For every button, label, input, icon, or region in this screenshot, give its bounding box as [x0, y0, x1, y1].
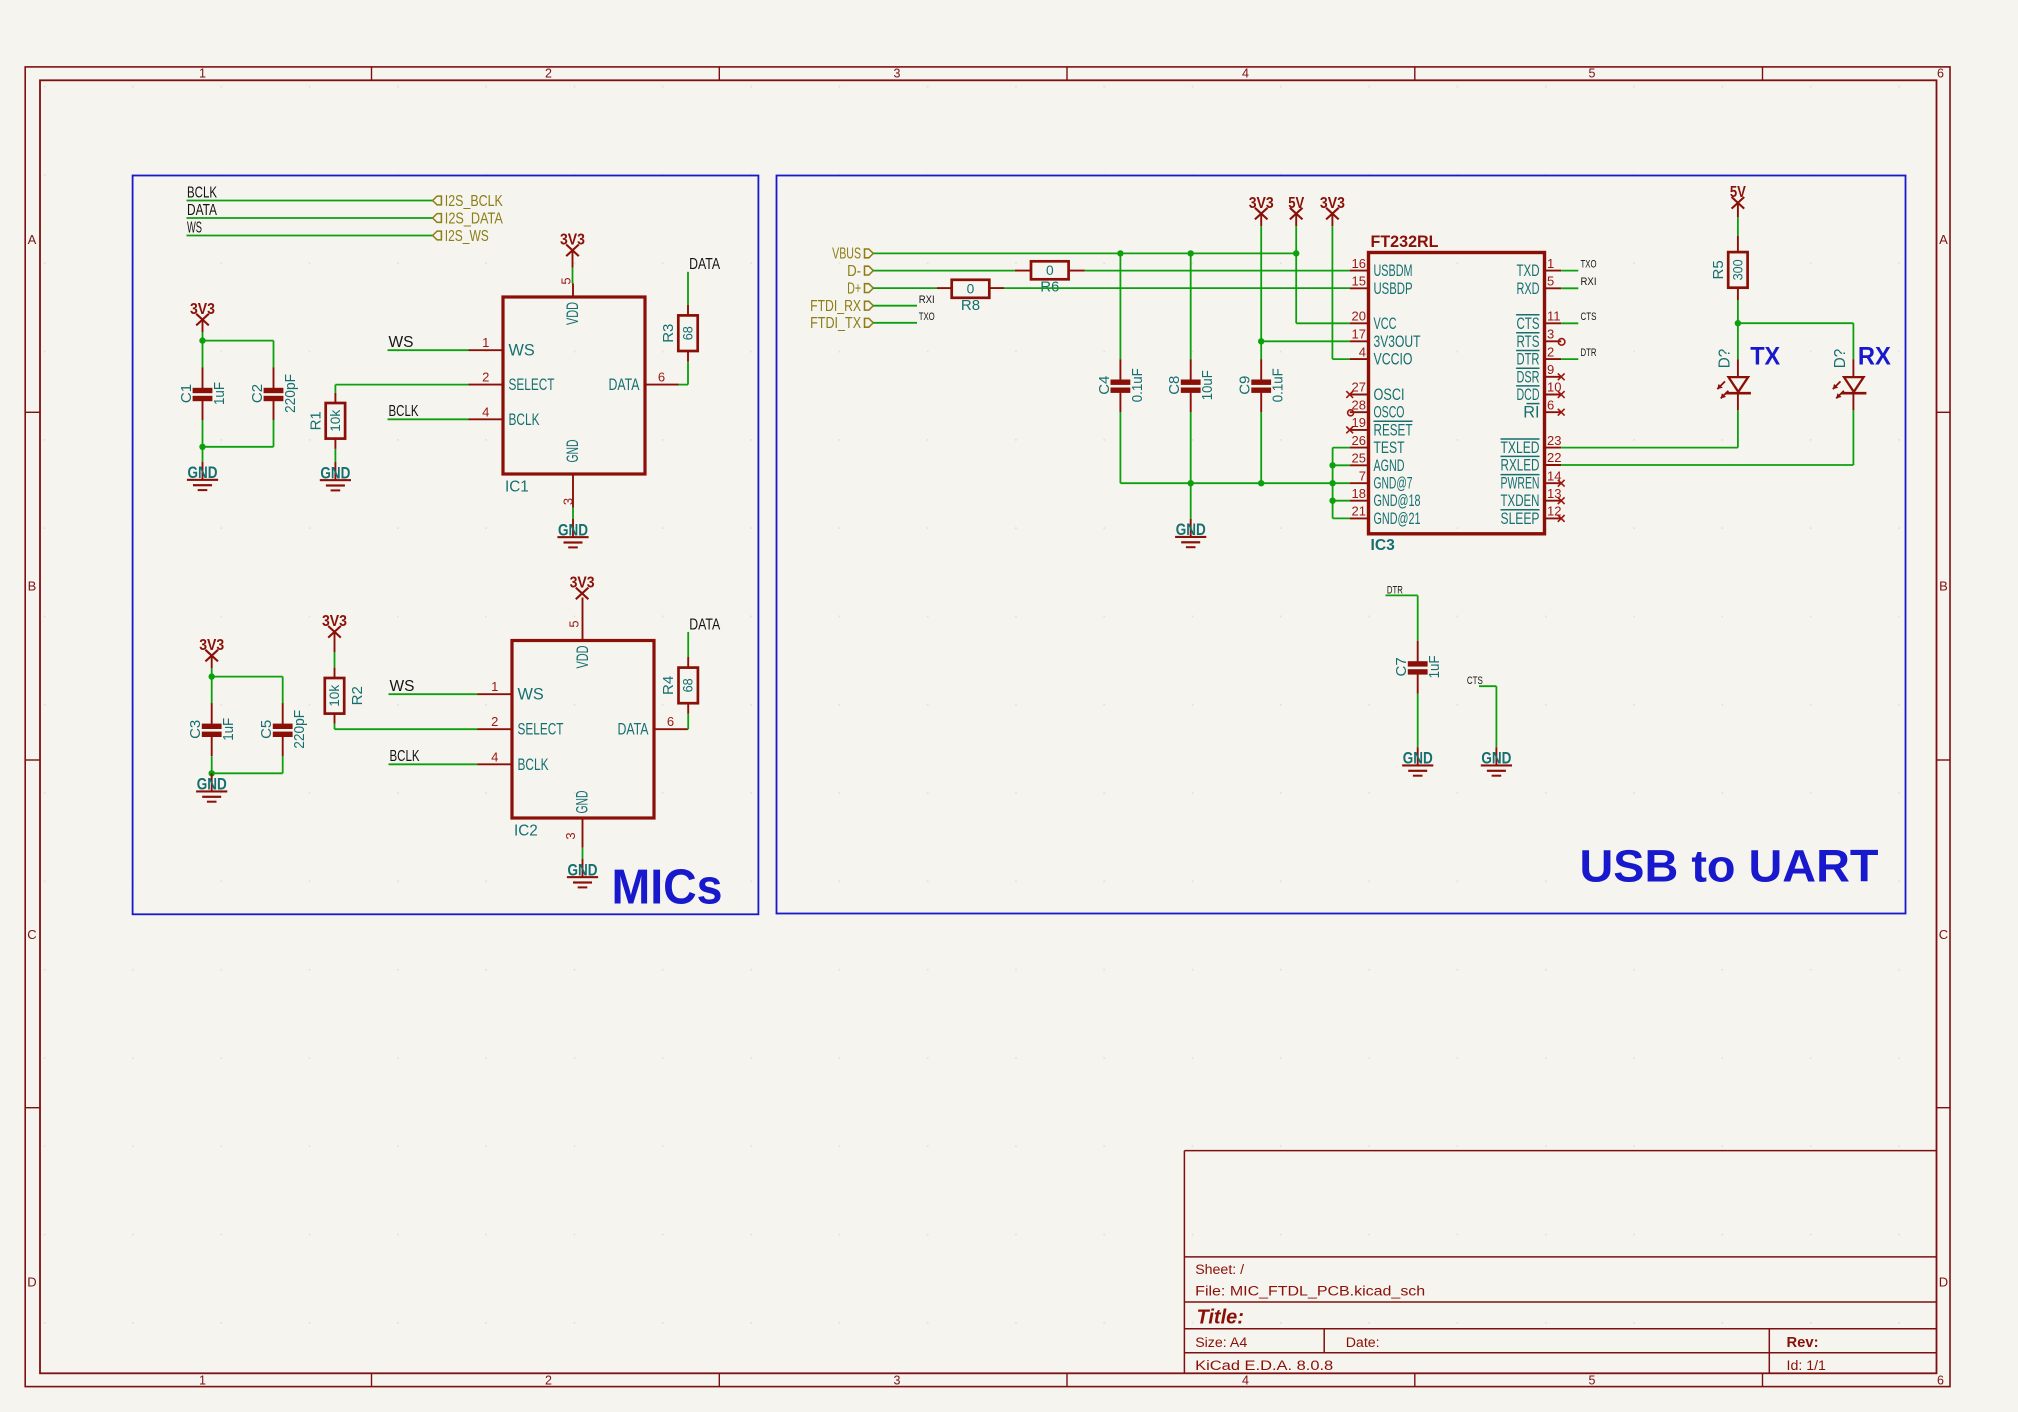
pin lead RX LED top — [1852, 359, 1854, 377]
title block text Size — [1195, 1335, 1247, 1351]
svg-text:3: 3 — [563, 832, 578, 839]
svg-text:C4: C4 — [1096, 376, 1113, 395]
wire 3V3 stem to junction (mic2) — [211, 668, 213, 677]
resistor R5 — [1710, 252, 1748, 288]
pin lead R5 top — [1737, 236, 1739, 252]
svg-text:15: 15 — [1352, 274, 1366, 289]
pin 6 RI of IC3 — [1523, 397, 1564, 421]
svg-text:4: 4 — [1359, 344, 1366, 359]
wire R3 to DATA label — [687, 272, 689, 305]
svg-text:1uF: 1uF — [220, 718, 237, 741]
hierarchical label I2S_DATA — [433, 210, 504, 227]
power 3V3 (C1/C2) — [190, 301, 215, 332]
wire 3V3 to IC1 pin5 — [572, 268, 574, 284]
svg-text:1: 1 — [482, 335, 489, 350]
svg-text:R2: R2 — [349, 686, 366, 705]
wire TXLED net — [1561, 410, 1738, 447]
svg-text:GND: GND — [564, 440, 582, 463]
svg-text:C3: C3 — [187, 720, 204, 739]
pin 14 PWREN of IC3 — [1501, 468, 1565, 492]
pin lead R3 bottom — [687, 351, 689, 362]
power 3V3 (R2) — [322, 613, 347, 652]
svg-text:C8: C8 — [1166, 376, 1183, 395]
wire VBUS to C4 — [1119, 253, 1121, 359]
svg-text:C9: C9 — [1237, 376, 1254, 395]
svg-text:Size: A4: Size: A4 — [1195, 1335, 1247, 1351]
resistor R8 — [952, 280, 990, 314]
svg-text:18: 18 — [1352, 486, 1366, 501]
svg-text:C: C — [27, 927, 36, 942]
wire DATA to I2S_DATA — [187, 217, 433, 219]
title block text Title — [1197, 1306, 1244, 1328]
svg-text:Id: 1/1: Id: 1/1 — [1787, 1358, 1827, 1374]
wire C4 to GND rail — [1119, 412, 1121, 483]
svg-text:I2S_DATA: I2S_DATA — [445, 210, 504, 227]
pin 4 BCLK of IC1 — [469, 404, 540, 429]
wire R5 to junction — [1737, 300, 1739, 323]
hierarchical label FTDI_RX — [810, 298, 873, 315]
pin lead R5 bottom — [1737, 288, 1739, 300]
svg-text:1: 1 — [1547, 256, 1554, 271]
pin 27 OSCI of IC3 — [1346, 380, 1404, 404]
svg-text:RX: RX — [1858, 343, 1891, 371]
wire TXD stub / label TXO — [1561, 259, 1597, 271]
wire DTR stub / label DTR — [1561, 347, 1596, 359]
hierarchical label VBUS — [832, 246, 873, 263]
title block text Date — [1346, 1335, 1380, 1351]
svg-text:4: 4 — [491, 749, 498, 764]
wire USBDP net — [1004, 287, 1349, 289]
pin 3 RTS of IC3 — [1516, 327, 1565, 351]
pin lead R6 left — [1015, 270, 1031, 272]
pin 16 USBDM of IC3 — [1350, 256, 1413, 280]
label DTR (C7) — [1387, 584, 1403, 596]
hierarchical label D- — [847, 263, 873, 280]
junction node GND mic1 — [199, 444, 205, 450]
svg-text:D?: D? — [1832, 349, 1849, 369]
capacitor C7 — [1393, 641, 1443, 694]
svg-text:3V3OUT: 3V3OUT — [1374, 333, 1421, 351]
pin 17 3V3OUT of IC3 — [1350, 327, 1421, 351]
resistor R4 — [660, 668, 698, 704]
pin 25 AGND of IC3 — [1350, 451, 1405, 475]
junction node 3V3OUT/C9 — [1258, 338, 1264, 344]
pin 26 TEST of IC3 — [1350, 433, 1405, 457]
svg-text:10uF: 10uF — [1199, 370, 1216, 400]
ground GND (C1/C2) — [187, 462, 218, 491]
svg-text:KiCad E.D.A. 8.0.8: KiCad E.D.A. 8.0.8 — [1195, 1358, 1333, 1374]
wire 3V3OUT row — [1261, 340, 1350, 342]
wire C3 bottom to GND junction — [211, 756, 213, 773]
svg-text:RXLED: RXLED — [1501, 457, 1540, 475]
wire FTDI_TX stub — [873, 322, 917, 324]
op-amp IC2 body (I2S microphone) — [512, 641, 654, 840]
capacitor C9 — [1237, 359, 1287, 412]
svg-text:3V3: 3V3 — [570, 575, 595, 592]
svg-text:D+: D+ — [847, 280, 861, 297]
wire 3V3 to R2 — [334, 652, 336, 668]
svg-text:C5: C5 — [258, 720, 275, 739]
wire C7 to GND — [1417, 694, 1419, 748]
svg-text:3: 3 — [894, 1373, 901, 1387]
svg-text:4: 4 — [1242, 1373, 1249, 1387]
junction node rail/IC3 grounds — [1329, 480, 1335, 486]
wire 3V3 junction down to C9 — [1260, 341, 1262, 359]
svg-text:RESET: RESET — [1374, 421, 1413, 439]
svg-text:USBDP: USBDP — [1374, 280, 1413, 298]
svg-text:I2S_BCLK: I2S_BCLK — [445, 193, 504, 210]
wire connector stub y=500.7 — [1333, 500, 1350, 502]
resistor R1 — [307, 403, 345, 439]
svg-text:BCLK: BCLK — [390, 748, 420, 765]
svg-text:USBDM: USBDM — [1374, 262, 1413, 280]
wire VBUS net — [873, 252, 1296, 254]
svg-text:6: 6 — [1937, 1373, 1944, 1387]
wire RXD stub / label RXI — [1561, 276, 1596, 288]
svg-text:22: 22 — [1547, 450, 1561, 465]
svg-text:FTDI_RX: FTDI_RX — [810, 298, 862, 315]
wire C5 bottom bridge — [212, 756, 283, 774]
wire junction to RX branch — [1738, 323, 1854, 359]
wire IC2 pin6 to R4 — [687, 714, 690, 730]
svg-text:D: D — [1939, 1275, 1948, 1290]
svg-text:VCCIO: VCCIO — [1374, 351, 1413, 369]
svg-text:1: 1 — [199, 67, 206, 81]
label DATA (mic2 out) — [689, 616, 721, 633]
svg-text:IC3: IC3 — [1371, 537, 1396, 554]
USB to UART section box — [777, 176, 1906, 914]
svg-text:C1: C1 — [178, 384, 195, 403]
wire connector stub y=483.2 — [1333, 482, 1350, 484]
svg-text:19: 19 — [1352, 415, 1366, 430]
svg-text:7: 7 — [1359, 468, 1366, 483]
svg-text:DATA: DATA — [689, 616, 721, 633]
svg-text:1: 1 — [199, 1373, 206, 1387]
wire 3V3 stem to junction — [202, 332, 204, 341]
hierarchical label I2S_BCLK — [433, 193, 504, 210]
svg-text:3V3: 3V3 — [322, 613, 347, 630]
label WS — [187, 219, 202, 236]
junction node VBUS/5V — [1293, 250, 1299, 256]
svg-text:4: 4 — [1242, 67, 1249, 81]
ground GND (R1) — [320, 462, 351, 491]
wire C1 bottom to GND junction — [202, 420, 204, 447]
svg-text:D?: D? — [1717, 349, 1734, 369]
svg-text:3: 3 — [561, 498, 576, 505]
svg-text:17: 17 — [1352, 327, 1366, 342]
capacitor C4 — [1096, 359, 1146, 412]
designator D? (TX) — [1717, 349, 1734, 369]
svg-text:Rev:: Rev: — [1787, 1335, 1819, 1351]
svg-text:R6: R6 — [1040, 279, 1059, 296]
pin 18 GND@18 of IC3 — [1350, 486, 1421, 510]
ground GND (IC2) — [567, 859, 598, 888]
pin 3 GND of IC2 — [563, 791, 592, 848]
junction node VBUS/C4 — [1117, 250, 1123, 256]
wire FTDI_RX stub — [873, 305, 917, 307]
svg-text:File: MIC_FTDL_PCB.kicad_sch: File: MIC_FTDL_PCB.kicad_sch — [1195, 1283, 1425, 1299]
pin 22 RXLED of IC3 — [1501, 450, 1562, 474]
svg-text:3V3: 3V3 — [199, 637, 224, 654]
svg-text:DATA: DATA — [618, 721, 649, 739]
svg-text:26: 26 — [1352, 433, 1366, 448]
svg-text:TXDEN: TXDEN — [1501, 492, 1540, 510]
svg-text:A: A — [1939, 232, 1948, 247]
title block — [1184, 1151, 1936, 1374]
pin 5 VDD of IC2 — [567, 598, 593, 669]
svg-text:6: 6 — [658, 370, 665, 385]
wire connector stub y=518.4 — [1333, 517, 1350, 519]
pin 4 BCLK of IC2 — [478, 749, 549, 774]
svg-text:DTR: DTR — [1581, 347, 1597, 359]
resistor R6 — [1031, 261, 1069, 295]
label WS (mic1) — [389, 334, 414, 351]
pin lead TX LED bottom — [1737, 393, 1739, 410]
svg-text:5: 5 — [567, 620, 582, 627]
wire IC3 ground connector — [1332, 448, 1334, 519]
svg-text:3V3: 3V3 — [190, 301, 215, 318]
svg-text:220pF: 220pF — [282, 374, 299, 413]
wire 3V3b stem to VCCIO — [1332, 226, 1349, 359]
junction node VBUS/C8 — [1188, 250, 1194, 256]
label BCLK — [187, 184, 217, 201]
pin lead RX LED bottom — [1852, 393, 1854, 410]
pin lead R4 bottom — [687, 703, 689, 714]
svg-text:3V3: 3V3 — [1320, 195, 1345, 212]
svg-text:R1: R1 — [307, 411, 324, 430]
wire IC1 pin6 to R3 — [679, 362, 689, 385]
svg-text:2: 2 — [491, 714, 498, 729]
svg-text:DATA: DATA — [689, 256, 721, 273]
power 5V (VCC) — [1288, 195, 1304, 226]
pin 28 OSCO of IC3 — [1348, 397, 1405, 421]
hierarchical label D+ — [847, 280, 873, 297]
wire R4 to DATA label — [687, 632, 689, 657]
capacitor C5 — [258, 703, 308, 756]
pin 21 GND@21 of IC3 — [1350, 504, 1421, 528]
svg-text:C2: C2 — [249, 384, 266, 403]
label RX — [1858, 343, 1891, 371]
svg-text:3: 3 — [894, 67, 901, 81]
power 3V3 (VCCIO) — [1320, 195, 1345, 226]
junction node GND mic2 — [209, 770, 215, 776]
wire USBDM net — [1085, 270, 1350, 272]
svg-text:RXI: RXI — [919, 294, 935, 306]
svg-text:RXD: RXD — [1517, 280, 1540, 298]
wire BCLK (mic1) — [388, 418, 469, 420]
svg-text:Sheet: /: Sheet: / — [1195, 1262, 1244, 1278]
ground GND (C7) — [1402, 747, 1433, 776]
pin lead TX LED top — [1737, 359, 1739, 377]
svg-text:TXO: TXO — [1581, 259, 1597, 271]
svg-text:BCLK: BCLK — [518, 756, 549, 774]
pin 19 RESET of IC3 — [1346, 415, 1412, 439]
svg-text:5: 5 — [1589, 1373, 1596, 1387]
pin 2 SELECT of IC2 — [478, 714, 564, 739]
pin lead R6 right — [1069, 270, 1085, 272]
title block text Id — [1787, 1358, 1827, 1374]
svg-text:OSCO: OSCO — [1374, 404, 1405, 422]
wire C8 to GND rail — [1190, 412, 1192, 483]
label CTS (pull) — [1467, 675, 1483, 687]
wire 3V3 stem to 3V3OUT junction — [1260, 226, 1262, 341]
wire RXLED net — [1561, 410, 1853, 465]
pin lead R2 top — [334, 668, 336, 678]
wire IC1 pin3 to GND — [572, 508, 574, 520]
svg-text:21: 21 — [1352, 504, 1366, 519]
svg-text:300: 300 — [1730, 259, 1745, 280]
wire D+ to R8 — [873, 287, 937, 289]
wire connector stub y=465.3 — [1333, 464, 1350, 466]
svg-text:VDD: VDD — [574, 646, 592, 669]
label BCLK (mic2) — [390, 748, 420, 765]
pin 6 DATA of IC1 — [609, 370, 679, 395]
svg-text:0: 0 — [967, 281, 975, 296]
svg-text:2: 2 — [545, 67, 552, 81]
svg-text:DTR: DTR — [1517, 351, 1540, 369]
op-amp IC1 body (I2S microphone) — [503, 297, 645, 496]
svg-text:D: D — [27, 1275, 36, 1290]
svg-text:IC1: IC1 — [505, 479, 529, 496]
pin 2 DTR of IC3 — [1516, 344, 1561, 368]
svg-text:3: 3 — [1547, 327, 1554, 342]
svg-text:USB to UART: USB to UART — [1580, 841, 1879, 892]
ground GND (C3/C5) — [196, 773, 227, 802]
svg-text:Title:: Title: — [1197, 1306, 1244, 1328]
junction node connector/GND18 — [1329, 498, 1335, 504]
pin lead R8 right — [988, 287, 1004, 289]
wire SELECT net (R2 to IC2 pin2) — [335, 724, 478, 730]
junction node rail/C9 — [1258, 480, 1264, 486]
junction node rail/C8 — [1188, 480, 1194, 486]
wire top bridge to C5 — [212, 677, 283, 704]
pin 2 SELECT of IC1 — [469, 370, 555, 395]
wire VBUS to C8 — [1190, 253, 1192, 359]
svg-text:AGND: AGND — [1374, 457, 1405, 475]
pin 1 TXD of IC3 — [1517, 256, 1562, 280]
svg-text:68: 68 — [681, 326, 696, 340]
pin 13 TXDEN of IC3 — [1501, 486, 1565, 510]
pin lead R2 bottom — [334, 714, 336, 724]
svg-text:WS: WS — [518, 686, 544, 704]
svg-text:FTDI_TX: FTDI_TX — [810, 315, 862, 332]
resistor R3 — [660, 315, 698, 351]
label TXO (FTDI_TX) — [919, 311, 935, 323]
capacitor C3 — [187, 703, 237, 756]
svg-text:RI: RI — [1523, 404, 1539, 422]
resistor R2 — [325, 678, 366, 714]
title block text KiCad — [1195, 1358, 1333, 1374]
power 3V3 (IC1 VDD) — [560, 232, 585, 268]
capacitor C2 — [249, 368, 299, 421]
wire C9 to GND rail — [1260, 412, 1262, 483]
svg-text:6: 6 — [667, 714, 674, 729]
svg-text:68: 68 — [681, 678, 696, 692]
svg-text:2: 2 — [1547, 344, 1554, 359]
wire C2 bottom bridge — [203, 420, 274, 447]
svg-text:2: 2 — [482, 370, 489, 385]
svg-text:R5: R5 — [1710, 260, 1727, 279]
svg-text:TEST: TEST — [1374, 439, 1405, 457]
wire BCLK (mic2) — [389, 763, 478, 765]
svg-text:MICs: MICs — [612, 861, 723, 915]
wire D- to R6 — [873, 270, 1015, 272]
svg-text:GND@7: GND@7 — [1374, 475, 1413, 493]
svg-text:VBUS: VBUS — [832, 246, 861, 263]
svg-text:VDD: VDD — [564, 302, 582, 325]
pin 4 VCCIO of IC3 — [1350, 344, 1413, 368]
hierarchical label I2S_WS — [433, 228, 489, 245]
svg-text:23: 23 — [1547, 433, 1561, 448]
svg-text:0: 0 — [1046, 263, 1054, 278]
wire C1 vertical net 3V3 — [202, 341, 204, 368]
svg-text:C7: C7 — [1393, 657, 1410, 676]
svg-text:0.1uF: 0.1uF — [1270, 368, 1287, 402]
pin lead R8 left — [937, 287, 953, 289]
pin 12 SLEEP of IC3 — [1501, 504, 1565, 528]
wire junction to GND symbol — [202, 447, 204, 462]
svg-text:A: A — [28, 232, 37, 247]
wire connector stub y=447.6 — [1333, 447, 1350, 449]
ground GND (C8 rail) — [1175, 519, 1206, 548]
svg-text:1uF: 1uF — [1426, 655, 1443, 678]
svg-text:BCLK: BCLK — [187, 184, 217, 201]
wire junction down to TX LED — [1737, 323, 1739, 359]
svg-text:R8: R8 — [961, 297, 980, 314]
designator D? (RX) — [1832, 349, 1849, 369]
junction node 3V3 mic2 — [209, 673, 215, 679]
pin 1 WS of IC2 — [478, 679, 544, 704]
svg-text:RXI: RXI — [1581, 276, 1597, 288]
label DATA (mic1 out) — [689, 256, 721, 273]
svg-text:DSR: DSR — [1517, 368, 1540, 386]
svg-text:CTS: CTS — [1517, 315, 1540, 333]
capacitor C1 — [178, 368, 228, 421]
svg-text:5: 5 — [1547, 274, 1554, 289]
pin lead R1 top — [334, 393, 336, 403]
wire 5V to R5 — [1737, 217, 1739, 236]
wire C8 to GND symbol — [1190, 483, 1192, 519]
svg-text:IC2: IC2 — [514, 823, 538, 840]
svg-text:6: 6 — [1937, 67, 1944, 81]
svg-text:RTS: RTS — [1517, 333, 1540, 351]
svg-text:5: 5 — [1589, 67, 1596, 81]
svg-text:DATA: DATA — [609, 376, 640, 394]
svg-text:WS: WS — [187, 219, 202, 236]
svg-text:GND@21: GND@21 — [1374, 510, 1421, 528]
IC IC3 FT232RL body — [1369, 232, 1545, 554]
MICs section box — [133, 176, 759, 915]
svg-text:27: 27 — [1352, 380, 1366, 395]
junction node 3V3 mic1 — [199, 337, 205, 343]
svg-text:I2S_WS: I2S_WS — [445, 228, 489, 245]
svg-text:BCLK: BCLK — [509, 411, 540, 429]
title block text Rev — [1787, 1335, 1819, 1351]
svg-text:GND@18: GND@18 — [1374, 492, 1421, 510]
svg-text:SELECT: SELECT — [509, 376, 555, 394]
pin 10 DCD of IC3 — [1516, 380, 1565, 404]
wire C3 vertical net 3V3 — [211, 677, 213, 704]
label BCLK (mic1) — [389, 403, 419, 420]
svg-text:5: 5 — [559, 277, 574, 284]
power 3V3 (3V3OUT) — [1249, 195, 1274, 226]
svg-text:VCC: VCC — [1374, 315, 1397, 333]
wire 5V stem — [1296, 226, 1350, 323]
pin 11 CTS of IC3 — [1516, 309, 1561, 333]
wire DTR to C7 — [1386, 595, 1418, 641]
pin 3 GND of IC1 — [561, 440, 583, 508]
junction node connector/AGND — [1329, 462, 1335, 468]
